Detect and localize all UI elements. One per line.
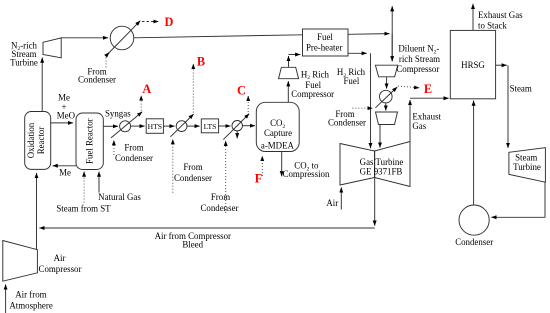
steam turbine ST — [509, 148, 546, 183]
wire: capture to H2 compressor — [287, 81, 289, 102]
wire: HX3 condensate stub — [236, 131, 238, 138]
wire: dotted to E — [398, 86, 419, 88]
svg-text:HTS: HTS — [148, 122, 162, 131]
wire: CO2 to compression — [281, 152, 283, 177]
svg-text:From: From — [183, 162, 202, 172]
wire: N2 vertical up/down — [391, 6, 393, 61]
svg-text:Natural Gas: Natural Gas — [98, 192, 141, 202]
wire: fuel down to gas turbine — [370, 53, 372, 148]
svg-text:GE 9371FB: GE 9371FB — [360, 167, 403, 177]
svg-text:Fuel Reactor: Fuel Reactor — [85, 118, 95, 164]
wire: HTS to HX2 — [163, 125, 174, 127]
svg-text:Fuel: Fuel — [344, 76, 360, 86]
wire: HX-D diagonal — [106, 21, 141, 56]
diluent N2 compressor K2 — [375, 65, 397, 77]
heat exchanger HX3 — [232, 121, 242, 131]
svg-text:Syngas: Syngas — [105, 109, 131, 119]
svg-text:Compressor: Compressor — [291, 89, 334, 99]
CO2 capture column — [256, 102, 299, 151]
svg-text:Condenser: Condenser — [78, 74, 116, 84]
wire: ST to condenser — [491, 182, 545, 217]
wire: compressor to pre-heater elbow — [288, 56, 290, 67]
svg-text:From: From — [211, 192, 230, 202]
wire: air from compressor bleed — [39, 227, 374, 229]
heat exchanger HX-E — [380, 90, 393, 103]
wire: steam from HRSG to steam turbine — [496, 64, 507, 66]
heat exchanger HX2 — [176, 121, 187, 132]
svg-text:Gas: Gas — [412, 121, 426, 131]
wire: compressor to HX-E — [386, 77, 388, 89]
wire: GT center shaft down — [374, 151, 376, 226]
svg-text:a-MDEA: a-MDEA — [261, 140, 295, 150]
wire: exhaust gas to stack — [472, 4, 474, 31]
wire: HX3 to CO2 capture — [242, 125, 255, 127]
svg-text:D: D — [165, 15, 174, 29]
svg-text:Capture: Capture — [264, 128, 292, 138]
gas turbine GT right — [375, 142, 411, 187]
svg-text:to Stack: to Stack — [478, 21, 507, 31]
wire: GT exhaust up — [409, 100, 411, 142]
svg-text:Compressor: Compressor — [39, 264, 82, 274]
svg-text:Exhaust Gas: Exhaust Gas — [478, 10, 523, 20]
svg-text:Oxidation: Oxidation — [26, 122, 36, 158]
heat exchanger HX-D — [110, 26, 134, 50]
svg-text:Bleed: Bleed — [182, 240, 203, 250]
svg-text:Me: Me — [59, 168, 71, 178]
svg-text:Atmosphere: Atmosphere — [9, 301, 52, 311]
svg-text:A: A — [142, 82, 151, 96]
wire: pre-heater to N2 vertical — [348, 33, 390, 36]
svg-text:C: C — [237, 83, 246, 97]
svg-text:Air: Air — [54, 253, 66, 263]
svg-text:Condenser: Condenser — [201, 203, 239, 213]
HRSG — [450, 30, 495, 98]
H2 rich fuel compressor K1 — [279, 67, 299, 78]
wire: dotted from condenser to HX3 — [225, 141, 227, 213]
wire: exhaust to HRSG — [410, 97, 449, 99]
wire: HX1 to HTS — [131, 125, 145, 127]
svg-text:Condenser: Condenser — [115, 153, 153, 163]
wire: dashed to D — [142, 21, 159, 23]
oxidation reactor R1 — [25, 112, 51, 170]
wire: HX2 diagonal — [170, 114, 193, 137]
svg-text:Compression: Compression — [283, 169, 330, 179]
wire: syngas line — [103, 125, 118, 127]
wire: dotted to A — [140, 96, 142, 111]
svg-text:Gas Turbine: Gas Turbine — [360, 157, 404, 167]
wire: air from atmosphere — [5, 284, 7, 313]
diluent N2 compressor K3 — [376, 112, 398, 125]
svg-text:Me: Me — [58, 92, 70, 102]
svg-text:Reactor: Reactor — [36, 127, 46, 155]
wire: HX-D to fuel pre-heater — [134, 35, 303, 38]
wire: Me+MeO — [51, 122, 73, 124]
wire: LTS to HX3 — [219, 125, 231, 127]
wire: turbine to HX D — [61, 37, 108, 39]
wire: natural gas — [98, 172, 100, 193]
wire: HX2 to LTS — [187, 125, 200, 127]
svg-text:Air: Air — [326, 198, 338, 208]
svg-text:F: F — [255, 171, 263, 185]
svg-text:Steam from ST: Steam from ST — [56, 204, 111, 214]
wire: condensate to HRSG — [473, 101, 475, 205]
svg-text:Turbine: Turbine — [513, 162, 541, 172]
svg-text:Condenser: Condenser — [174, 173, 212, 183]
wire: dotted F into capture — [261, 156, 263, 176]
fuel reactor R2 — [76, 113, 103, 170]
wire: dotted from condenser to HX1 — [113, 140, 115, 155]
svg-text:B: B — [197, 54, 205, 68]
N2-rich stream turbine T1 — [43, 38, 61, 58]
svg-text:Condenser: Condenser — [328, 117, 366, 127]
wire: dotted from condenser to HX2 — [172, 139, 174, 192]
wire: pre-heater fuel out — [348, 52, 367, 54]
wire: diluent to gas turbine — [379, 125, 381, 148]
wire: HX3 diagonal — [223, 114, 249, 140]
wire: air into oxidation reactor — [36, 173, 38, 250]
LTS reactor — [201, 119, 218, 133]
svg-text:Air from: Air from — [15, 290, 46, 300]
svg-text:Exhaust: Exhaust — [412, 111, 441, 121]
svg-text:Steam: Steam — [510, 83, 532, 93]
wire: HX-E diagonal — [375, 87, 397, 108]
heat exchanger HX1 — [120, 121, 131, 132]
wire: dotted from condenser to HX-E — [352, 107, 372, 109]
wire: HX1 diagonal — [111, 112, 142, 138]
fuel pre-heater E1 — [303, 29, 349, 56]
svg-text:MeO: MeO — [57, 110, 76, 120]
HTS reactor — [146, 119, 163, 134]
wire: steam from ST dotted — [83, 172, 85, 203]
svg-text:From: From — [124, 143, 143, 153]
svg-text:Turbine: Turbine — [10, 57, 38, 67]
wire: dotted to C — [247, 96, 249, 112]
svg-text:Fuel: Fuel — [317, 32, 333, 42]
svg-text:Compressor: Compressor — [396, 64, 439, 74]
wire: N2 from oxidation reactor to turbine — [41, 58, 43, 112]
wire: HX-E to compressor 2 — [385, 103, 387, 111]
condenser — [459, 205, 489, 235]
wire: Me return — [53, 165, 76, 167]
wire: air stub into GT — [340, 187, 342, 209]
air compressor AC — [3, 241, 38, 282]
svg-text:rich Stream: rich Stream — [399, 54, 440, 64]
wire: dotted from condenser to HX-D — [105, 58, 107, 69]
wire: dotted to B — [192, 64, 194, 113]
svg-text:HRSG: HRSG — [461, 60, 485, 70]
gas turbine GT left — [340, 144, 375, 186]
svg-text:Pre-heater: Pre-heater — [306, 42, 343, 52]
svg-text:LTS: LTS — [204, 122, 217, 131]
arrow on diagonal lower end — [106, 53, 110, 57]
svg-text:Condenser: Condenser — [455, 237, 493, 247]
svg-text:E: E — [424, 82, 432, 96]
